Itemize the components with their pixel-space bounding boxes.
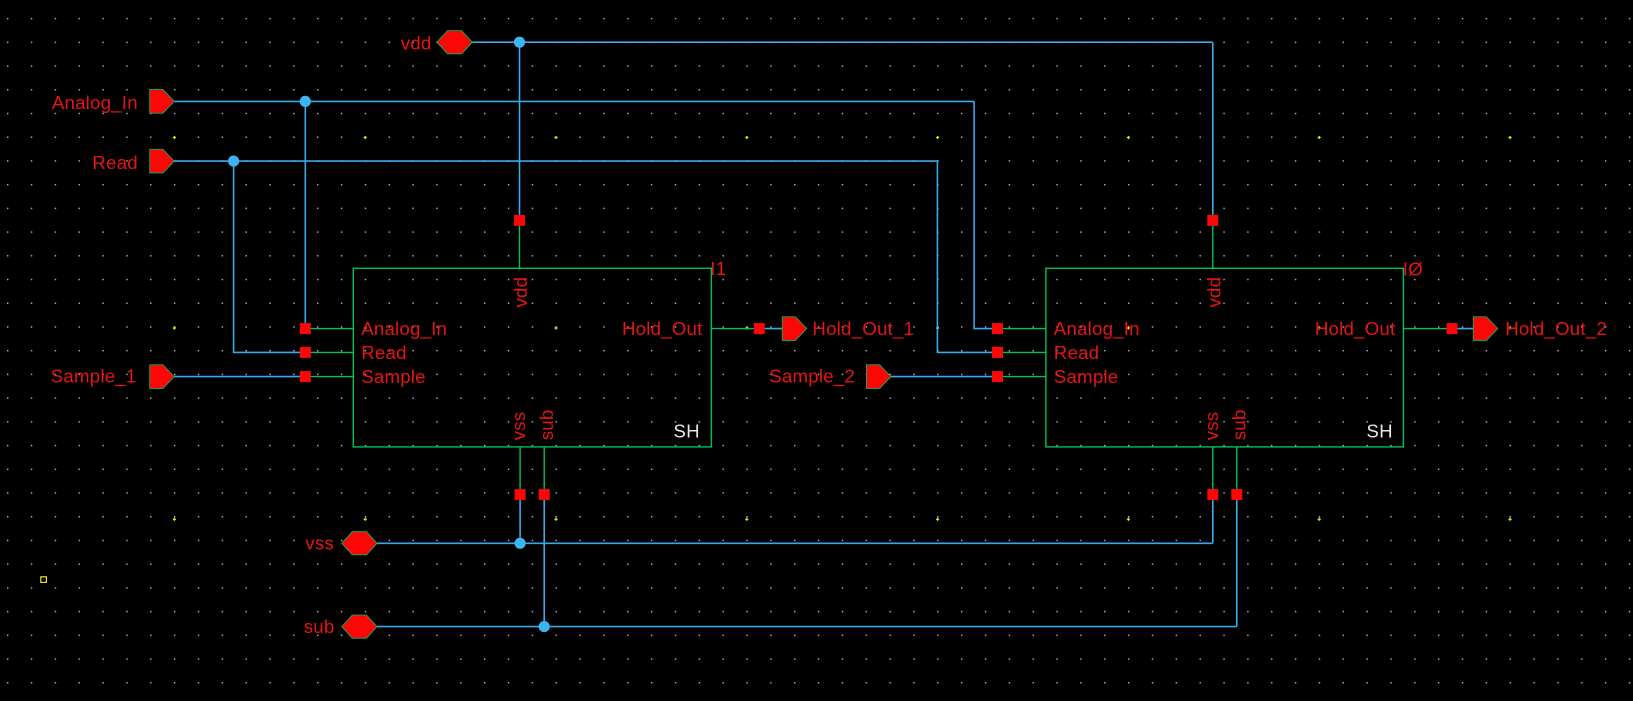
pin square I1 vss (515, 489, 526, 500)
pin square I0 Analog_In (992, 323, 1003, 334)
instance I0 Hold_Out pin stub (1403, 328, 1452, 330)
wire net sub riser I0 (1236, 495, 1238, 627)
svg-text:Read: Read (1054, 342, 1099, 363)
svg-text:Hold_Out_2: Hold_Out_2 (1505, 318, 1607, 340)
instance I1 Analog_In pin stub (305, 328, 353, 330)
wire net Analog_In horizontal (174, 100, 974, 102)
port symbol sub hexagon (342, 615, 377, 638)
major grid marks row3 (173, 518, 1512, 521)
junction vdd (514, 37, 525, 48)
svg-text:Read: Read (92, 152, 137, 173)
port symbol Read (150, 149, 175, 173)
port symbol Hold_Out_2 (1473, 317, 1498, 341)
svg-text:Hold_Out: Hold_Out (622, 318, 703, 340)
junction vss (515, 538, 526, 549)
wire net sub riser I1 (543, 495, 545, 627)
junction Read (228, 156, 239, 167)
svg-text:Analog_In: Analog_In (1054, 318, 1140, 340)
pin square I0 Sample (992, 371, 1003, 382)
svg-text:sub: sub (304, 616, 335, 637)
wire net sub horizontal (377, 626, 1237, 628)
instance I0 vdd pin stub (1212, 220, 1214, 268)
svg-text:Hold_Out: Hold_Out (1315, 318, 1396, 340)
wire net vdd drop to I0 (1212, 42, 1214, 221)
svg-text:Hold_Out_1: Hold_Out_1 (812, 318, 914, 340)
instance I1 Read pin stub (305, 351, 353, 353)
wire net vss horizontal (377, 542, 1213, 544)
svg-text:Sample_1: Sample_1 (51, 366, 137, 388)
svg-text:SH: SH (1366, 421, 1393, 442)
svg-text:SH: SH (673, 421, 700, 442)
pin square I1 Analog_In (300, 323, 311, 334)
instance I0 Sample pin stub (998, 376, 1046, 378)
svg-text:sub: sub (536, 410, 557, 441)
junction Analog_In (300, 96, 311, 107)
instance I0 body SH block (1046, 268, 1404, 447)
wire net Analog_In drop to I0 pin (974, 101, 997, 328)
instance I1 vss pin stub (519, 447, 521, 495)
wire net Hold_Out_1 stub (764, 328, 783, 330)
wire net Sample_1 (174, 376, 305, 378)
svg-text:Sample: Sample (1054, 366, 1119, 387)
svg-text:IØ: IØ (1403, 259, 1423, 280)
instance I0 Analog_In pin stub (998, 328, 1046, 330)
wire net Hold_Out_2 stub (1456, 328, 1474, 330)
svg-text:I1: I1 (710, 258, 726, 279)
pin square I1 Read (300, 347, 311, 358)
instance I1 vdd pin stub (519, 220, 521, 268)
instance I1 Hold_Out pin stub (711, 328, 759, 330)
wire net vdd drop to I1 (519, 42, 521, 221)
instance I1 Sample pin stub (305, 376, 353, 378)
wire net vdd horizontal (472, 41, 1212, 43)
wire net Read horizontal (174, 160, 937, 162)
svg-text:vss: vss (1201, 412, 1222, 441)
origin marker (41, 577, 47, 583)
instance I0 sub pin stub (1236, 447, 1238, 495)
pin square I0 vdd (1207, 215, 1218, 226)
svg-text:vss: vss (508, 412, 529, 441)
port symbol vss hexagon (342, 532, 377, 555)
svg-text:vdd: vdd (401, 33, 432, 54)
wire net Read drop to I1 pin (234, 161, 306, 352)
svg-text:vss: vss (305, 532, 334, 553)
pin square I1 Sample (300, 371, 311, 382)
pin square I0 vss (1207, 489, 1218, 500)
major grid marks row1 (173, 136, 1512, 139)
port symbol Sample_2 (866, 365, 891, 389)
instance I1 sub pin stub (543, 447, 545, 495)
junction sub (539, 621, 550, 632)
svg-text:vdd: vdd (510, 277, 531, 308)
port symbol Hold_Out_1 (782, 317, 807, 341)
pin square I1 Hold_Out (754, 323, 765, 334)
svg-text:Analog_In: Analog_In (361, 318, 447, 340)
port symbol Sample_1 (150, 365, 175, 389)
instance I0 Read pin stub (998, 351, 1046, 353)
svg-text:sub: sub (1229, 410, 1250, 441)
port symbol vdd hexagon (437, 31, 472, 54)
svg-text:vdd: vdd (1203, 277, 1224, 308)
svg-text:Sample_2: Sample_2 (769, 366, 855, 388)
wire net vss riser I1 (519, 495, 521, 544)
svg-text:Sample: Sample (361, 366, 426, 387)
pin square I0 Read (992, 347, 1003, 358)
wire net vss riser I0 (1212, 495, 1214, 544)
pin square I1 vdd (514, 215, 525, 226)
major grid marks row2 (173, 326, 1512, 329)
pin square I0 Hold_Out (1447, 323, 1458, 334)
wire net Read drop to I0 pin (937, 161, 997, 352)
wire net Sample_2 (891, 376, 998, 378)
instance I0 vss pin stub (1212, 447, 1214, 495)
svg-text:Analog_In: Analog_In (52, 92, 138, 114)
wire net Analog_In drop to I1 pin (304, 101, 306, 328)
svg-text:Read: Read (361, 342, 406, 363)
pin square I0 sub (1231, 489, 1242, 500)
instance I1 body SH block (353, 268, 711, 447)
port symbol Analog_In (150, 90, 175, 114)
pin square I1 sub (539, 489, 550, 500)
